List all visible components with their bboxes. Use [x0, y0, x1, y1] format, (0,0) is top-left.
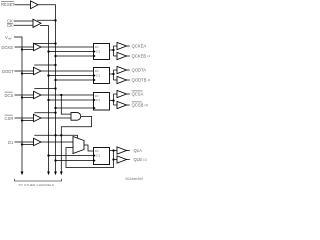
junction enable row5: [54, 134, 56, 136]
wire RESET input: [15, 4, 31, 6]
wire clock to FF2 C1: [49, 75, 94, 77]
junction C1 row2: [47, 74, 49, 76]
node CSR label: [5, 116, 14, 121]
wire VREF branch row5: [22, 144, 34, 146]
wire output branch row1: [113, 46, 115, 56]
wire clock to FF3 C1: [49, 99, 94, 101]
node DCKE label: [2, 45, 14, 50]
multiplexer U12: [73, 137, 84, 154]
flip-flop U8 (CS): [94, 93, 110, 111]
svg-text:QCKEA: QCKEA: [132, 44, 147, 49]
wire VREF branch row2: [22, 73, 34, 75]
junction R row3: [54, 107, 56, 109]
overline DCS: [5, 91, 13, 93]
AND gate U10: [71, 113, 81, 121]
wire mux output to FF5 1D: [84, 145, 94, 151]
node QCKEA label: [132, 44, 147, 49]
arrow clock to other channels: [47, 172, 50, 176]
node DODT label: [2, 69, 14, 74]
wire Q1B out: [127, 159, 130, 161]
buffer Q1B: [117, 156, 127, 163]
buffer Q1A: [117, 147, 127, 154]
wire to QCKEB buffer: [114, 55, 118, 57]
wire CSR to AND gate: [41, 117, 71, 119]
wire D1 to mux input 0: [41, 141, 73, 143]
op-amp U7 DCS receiver: [34, 91, 42, 98]
wire receiver enable row3: [34, 88, 55, 90]
pin 1D FF1: [95, 45, 100, 49]
node Q1A label: [134, 148, 143, 153]
node DCS label: [5, 93, 14, 98]
wire reset to FF2 R: [56, 79, 94, 81]
junction C1 row1: [47, 50, 49, 52]
wire to QCSB buffer: [114, 104, 118, 106]
wire FF1 Q output: [110, 49, 114, 51]
junction VREF row3: [21, 96, 23, 98]
flip-flop U6 (ODT): [94, 68, 110, 84]
wire output branch row5: [113, 151, 115, 160]
brace to other channels: [15, 179, 62, 181]
svg-text:QODTA: QODTA: [132, 68, 147, 73]
svg-text:1D: 1D: [95, 149, 100, 153]
wire CSR input: [15, 117, 34, 119]
op-amp U3 DCKE receiver: [34, 43, 42, 50]
node QODTB label: [132, 78, 152, 83]
wire select to mux: [34, 135, 77, 138]
svg-text:C1: C1: [96, 98, 100, 102]
svg-text:C1: C1: [96, 154, 100, 158]
svg-text:DODT: DODT: [2, 69, 14, 74]
wire to Q1B buffer: [114, 159, 118, 161]
pin 1D FF3: [95, 94, 100, 98]
wire QCKEB out: [127, 55, 130, 57]
wire receiver enable row2: [34, 64, 55, 66]
svg-text:D1: D1: [8, 140, 14, 145]
node VREF label: [5, 35, 12, 41]
wire D1 input: [15, 141, 34, 143]
wire FF3 Q output: [110, 100, 114, 102]
buffer QCSA: [117, 90, 127, 97]
junction FF2 output: [112, 73, 114, 75]
svg-text:TO OTHER CHANNELS: TO OTHER CHANNELS: [19, 183, 55, 187]
junction C1 row3: [47, 99, 49, 101]
wire QODTB out: [127, 79, 130, 81]
node Q1B label: [134, 157, 147, 162]
node QCSA label: [132, 92, 144, 97]
wire DODT input: [15, 70, 34, 72]
wire Q1A out: [127, 150, 130, 152]
svg-text:RESET: RESET: [1, 2, 15, 7]
junction gated select node: [60, 134, 62, 136]
node TO OTHER CHANNELS label: [19, 183, 55, 187]
svg-text:Q1A: Q1A: [134, 148, 143, 153]
flip-flop U13 (data): [94, 148, 110, 165]
wire DCS down to AND gate: [61, 95, 71, 114]
overline RESET: [1, 1, 14, 3]
wire VREF branch row1: [22, 49, 34, 51]
wire DCKE to FF1 1D: [41, 46, 94, 48]
junction VREF row5: [21, 143, 23, 145]
wire VREF to bus: [14, 37, 22, 172]
wire QCSB out: [127, 104, 130, 106]
junction VREF row4: [21, 119, 23, 121]
overline CK#: [7, 22, 13, 24]
overline CSR: [5, 114, 13, 116]
wire FF5 Q output: [110, 150, 118, 152]
node CK# label: [7, 23, 13, 28]
wire QCSA out: [127, 93, 130, 95]
wire gated select to other channels: [60, 135, 62, 172]
svg-text:CSR: CSR: [5, 116, 14, 121]
junction enable row3: [54, 87, 56, 89]
wire DCS to FF3 1D: [41, 94, 94, 96]
op-amp U9 CSR receiver: [34, 114, 42, 121]
junction FF5 output A: [112, 149, 114, 151]
wire CK true output to bus B2: [37, 19, 55, 21]
wire AND output loop to mux select: [61, 116, 91, 135]
pin 1D FF5: [95, 149, 100, 153]
svg-text:Q1B (1): Q1B (1): [134, 157, 147, 162]
svg-text:1D: 1D: [95, 45, 100, 49]
pin C1 FF1: [94, 50, 96, 53]
junction CK on B2: [54, 19, 56, 21]
svg-text:DCS: DCS: [5, 93, 14, 98]
wire to QODTA buffer: [114, 69, 118, 71]
wire receiver enable row1: [34, 43, 55, 45]
svg-text:QCSA: QCSA: [132, 92, 144, 97]
wire to QODTB buffer: [114, 79, 118, 81]
junction FF5 output B: [112, 158, 114, 160]
wire reset to FF1 R: [56, 55, 94, 57]
node QODTA label: [132, 68, 147, 73]
wire RESET bus (vertical B2): [38, 5, 56, 172]
junction FF3 output: [112, 99, 114, 101]
svg-text:C1: C1: [96, 74, 100, 78]
node RESET label: [1, 2, 15, 7]
overline QCSA: [132, 90, 143, 92]
node figure id: [125, 177, 143, 181]
arrow reset to other channels: [54, 172, 57, 176]
wire VREF branch row4: [22, 120, 34, 122]
buffer U1 RESET: [31, 1, 39, 9]
pin C1 FF2: [94, 74, 96, 77]
svg-text:C1: C1: [96, 50, 100, 54]
svg-text:QCKEB (1): QCKEB (1): [132, 54, 151, 59]
wire DODT to FF2 1D: [41, 70, 94, 72]
wire reset to FF3 R: [56, 107, 94, 109]
svg-text:DCKE: DCKE: [2, 45, 14, 50]
pin R FF2: [94, 78, 96, 81]
wire FF2 Q output: [110, 73, 114, 75]
junction VREF row2: [21, 72, 23, 74]
wire QCKEA out: [127, 45, 130, 47]
wire clock to FF5 C1: [49, 155, 94, 157]
overline QCSB: [132, 101, 142, 103]
wire VREF branch row3: [22, 97, 34, 99]
junction DCS branch to gate: [60, 94, 62, 96]
svg-text:002aae494: 002aae494: [125, 177, 143, 181]
op-amp U11 D1 receiver: [34, 138, 42, 145]
op-amp U2 clock receiver: [33, 19, 41, 27]
junction enable row1: [54, 42, 56, 44]
pin C1 FF5: [94, 154, 96, 157]
junction enable row4: [54, 112, 56, 114]
pin R FF5: [94, 159, 96, 162]
wire CK input: [14, 20, 34, 22]
pin R FF3: [94, 106, 96, 109]
svg-text:1D: 1D: [95, 69, 100, 73]
wire CK comp output to bus B1: [40, 26, 49, 172]
svg-text:QODTB (1): QODTB (1): [132, 78, 151, 83]
svg-text:QCSB (1): QCSB (1): [132, 103, 149, 108]
pin R FF1: [94, 54, 96, 57]
wire clock to FF1 C1: [49, 51, 94, 53]
junction FF1 output: [112, 49, 114, 51]
op-amp U5 DODT receiver: [34, 67, 42, 74]
buffer QODTB: [117, 76, 127, 83]
pin C1 FF3: [94, 98, 96, 101]
wire feedback from output to mux input 1: [66, 148, 114, 168]
node CK label: [7, 19, 13, 24]
junction R row5: [54, 159, 56, 161]
buffer QCKEB: [117, 52, 127, 59]
pin 1D FF2: [95, 69, 100, 73]
flip-flop U4 (CKE): [94, 44, 110, 60]
junction VREF row1: [21, 48, 23, 50]
wire receiver enable row4: [34, 112, 55, 114]
junction enable row2: [54, 64, 56, 66]
wire to QCSA buffer: [114, 93, 118, 95]
wire QODTA out: [127, 69, 130, 71]
wire to QCKEA buffer: [114, 45, 118, 47]
svg-text:Vref: Vref: [5, 35, 12, 41]
arrow gated select to other channels: [60, 172, 63, 176]
node QCKEB label: [132, 54, 152, 59]
wire output branch row2: [113, 70, 115, 80]
node QCSB label: [132, 103, 149, 108]
arrow VREF to other channels: [21, 172, 24, 176]
buffer QCSB: [117, 101, 127, 108]
junction R row1: [54, 55, 56, 57]
buffer QCKEA: [117, 42, 127, 49]
buffer QODTA: [117, 66, 127, 73]
junction C1 row5: [47, 154, 49, 156]
wire DCS input: [15, 94, 34, 96]
wire reset to FF5 R: [56, 160, 94, 162]
node D1 label: [8, 140, 14, 145]
wire DCKE input: [15, 46, 34, 48]
wire output branch row3: [113, 94, 115, 105]
junction R row2: [54, 79, 56, 81]
wire CK# input: [14, 24, 34, 26]
